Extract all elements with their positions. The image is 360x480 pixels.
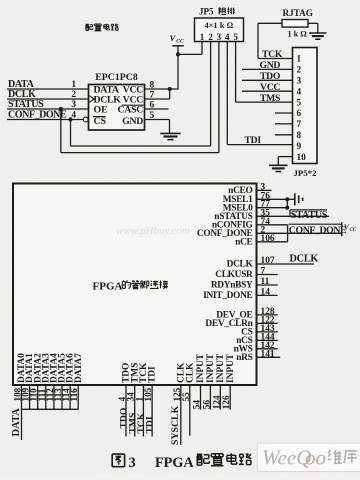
FPGA pin DEV_OE number 128 (261, 307, 275, 317)
net label TDO (260, 71, 281, 82)
wire VCC down to pin 8 rail (177, 46, 179, 89)
U1 pin 5 label GND (122, 116, 143, 127)
wire VCC branch to resistor network pin 1 (178, 53, 202, 55)
faint watermark text (116, 225, 190, 237)
wire FPGA pin nSTATUS (257, 215, 330, 217)
FPGA pin INPUT number 124 (211, 395, 221, 409)
FPGA pin nSTATUS number 35 (261, 208, 271, 218)
wire STATUS to U1 pin 3 (7, 108, 89, 110)
svg-text:6: 6 (297, 109, 302, 119)
ground symbol at U1 GND (160, 133, 181, 139)
svg-text:FPGA: FPGA (155, 455, 194, 471)
svg-text:4: 4 (297, 87, 302, 97)
svg-text:CONF_DONE: CONF_DONE (289, 225, 347, 236)
net label STATUS (right) with overline (290, 210, 328, 221)
wire JP5 pin 3 pull-up to STATUS run (218, 42, 220, 153)
wire CONF_DONE to U1 pin 4 bubble (7, 119, 83, 121)
connector JP5*2 body (293, 48, 318, 164)
svg-text:4: 4 (225, 32, 230, 42)
svg-text:INPUT: INPUT (196, 353, 206, 383)
FPGA pin nCEO label (228, 186, 252, 196)
wire RJTAG right to ground (308, 23, 318, 33)
FPGA pin RDYnBSY number 11 (261, 277, 270, 287)
net label CONF_DONE (right) with overline (289, 224, 348, 236)
wire DATA bus collector (22, 408, 79, 410)
net label CONF_DONE (left) (8, 110, 67, 121)
U1 pin 7 label VCC (123, 94, 144, 105)
wire FPGA pin INPUT 124 (219, 385, 221, 410)
svg-text:EPC1PC8: EPC1PC8 (95, 72, 138, 83)
wire FPGA pin RDYnBSY (257, 284, 278, 286)
FPGA pin TDI (bottom) label (148, 366, 158, 383)
ground symbol at RJTAG (309, 33, 327, 39)
ground symbol sideways at MSEL pins (295, 193, 303, 205)
U1 pin 8 label VCC (123, 84, 144, 95)
FPGA pin MSEL0 number 77 (261, 200, 271, 210)
FPGA block body (13, 184, 257, 386)
wire FPGA pin nCONFIG (257, 224, 288, 226)
FPGA pin nCE label (235, 237, 252, 247)
net label GND (260, 60, 281, 71)
FPGA pin INPUT label 4 (226, 353, 236, 383)
ground symbol at JP5*2 pin 10 (269, 165, 288, 171)
net label SYSCLK (bottom, rotated) (170, 405, 181, 445)
wire FPGA pin DATA3 (45, 385, 47, 409)
svg-text:JP5*2: JP5*2 (294, 168, 318, 178)
FPGA pin DATA6 number 114 (61, 388, 71, 402)
wire FPGA pin DATA5 (61, 385, 63, 409)
svg-text:CASC: CASC (118, 104, 144, 115)
wire FPGA pin CS (257, 331, 278, 333)
wire FPGA pin CLK 55 down (189, 385, 191, 436)
wire FPGA pin DATA2 (37, 385, 39, 409)
FPGA pin DATA3 number 111 (37, 388, 47, 401)
FPGA pin nSTATUS label (214, 212, 252, 222)
wire VCC stub to JP5*2 pin 4 (242, 90, 293, 92)
svg-text:7: 7 (297, 120, 302, 130)
FPGA pin nRS label (236, 353, 252, 363)
FPGA pin DATA4 number 112 (45, 388, 55, 402)
svg-text:RJTAG: RJTAG (283, 8, 313, 18)
FPGA pin TMS number 34 (126, 392, 136, 402)
FPGA pin TDO (bottom) label (122, 363, 132, 383)
net label DCLK (right) (290, 254, 319, 265)
svg-text:CC: CC (350, 228, 357, 233)
resistor network JP5 title: JP5 阻排 (199, 7, 235, 17)
svg-text:3: 3 (71, 100, 76, 110)
junction dot MSEL0 (285, 206, 289, 210)
FPGA pin DATA0 label (17, 353, 27, 383)
FPGA pin CLKUSR label (215, 270, 253, 280)
FPGA pin DCLK number 107 (261, 256, 275, 266)
svg-text:CC: CC (176, 39, 184, 45)
svg-text:STATUS: STATUS (291, 210, 328, 221)
wire U1 pin 5 to ground (145, 120, 170, 134)
FPGA pin CLK label (1) (176, 362, 186, 383)
svg-text:DCLK: DCLK (227, 260, 254, 270)
FPGA pin nCONFIG label (212, 220, 254, 230)
wire JP5 pin 4 pull-up down to TDI wire (226, 42, 228, 145)
wire FPGA pin TDO down (125, 385, 127, 437)
wire FPGA pin nCS (257, 339, 278, 341)
FPGA pin TCK (bottom) label (139, 362, 149, 383)
wire FPGA pin MSEL0 (257, 207, 288, 209)
FPGA pin nWS label (234, 344, 253, 354)
FPGA pin DATA4 label (50, 353, 60, 383)
net label TDO (bottom, rotated) (119, 408, 130, 429)
FPGA pin CLKUSR number 7 (261, 267, 266, 277)
watermark box WeeQoo (257, 443, 360, 471)
wire FPGA pin INPUT 56 (209, 385, 211, 410)
label: 配置电路 (configuration circuit) (86, 24, 119, 31)
FPGA pin nCE number 106 (261, 234, 275, 244)
svg-text:TDI: TDI (148, 366, 158, 383)
svg-text:1: 1 (297, 55, 302, 65)
svg-text:DATA7: DATA7 (74, 353, 84, 383)
svg-text:5: 5 (233, 32, 238, 42)
wire nCONFIG tie to nCE (287, 225, 289, 242)
junction dot on CONF_DONE wire (68, 117, 72, 121)
svg-text:RDYnBSY: RDYnBSY (211, 281, 253, 291)
wire FPGA pin DEV_OE (257, 314, 278, 316)
net label TCK (bottom, rotated) (136, 412, 147, 433)
wire FPGA pin DATA7 (77, 385, 79, 409)
net label TDI (bottom, rotated) (145, 416, 156, 433)
resistor network JP5 body (195, 18, 244, 42)
net label DATA (left) (8, 79, 35, 90)
wire GND stub to JP5*2 pin 2 (242, 68, 293, 70)
wire FPGA pin TCK down (142, 385, 144, 437)
FPGA pin TMS (bottom) label (130, 363, 140, 383)
net label DATA (bottom, rotated) (11, 408, 22, 437)
svg-text:DATA: DATA (11, 408, 22, 437)
wire FPGA pin nCEO (257, 189, 272, 191)
wire FPGA pin DCLK (257, 263, 315, 265)
svg-text:TDI: TDI (145, 416, 156, 433)
net label TMS (bottom, rotated) (127, 413, 138, 434)
FPGA pin CONF_DONE label (197, 229, 253, 239)
FPGA pin DATA5 number 113 (53, 388, 63, 402)
FPGA pin TCK number 1 (134, 397, 144, 402)
wire TDI from JP5 pin 4 to JP5*2 pin 9 (227, 144, 292, 146)
wire U1 pin 6 CASC stub (145, 108, 169, 110)
resistor RJTAG body (282, 20, 308, 28)
watermark text WeeQoo 维库 (262, 446, 357, 470)
FPGA pin DATA1 label (25, 353, 35, 383)
FPGA pin MSEL0 label (223, 203, 253, 213)
wire FPGA pin DEV_CLRn (257, 322, 278, 324)
FPGA pin nCEO number 3 (261, 182, 266, 192)
svg-text:1: 1 (200, 32, 205, 42)
FPGA pin INIT_DONE label (203, 291, 252, 301)
U1 pin number 7 (150, 90, 155, 100)
EPC1PC8 chip U1 body (89, 72, 145, 130)
FPGA pin nRS number 141 (261, 349, 275, 359)
wire JP5 pin 1 to VCC rail (201, 42, 203, 55)
svg-text:FPGA: FPGA (93, 280, 123, 292)
wire FPGA pin TMS down (134, 385, 136, 437)
FPGA pin CS number 143 (261, 324, 275, 334)
U1 pin 4 inversion bubble (83, 117, 88, 122)
FPGA pin RDYnBSY label (211, 281, 253, 291)
JP5 pin numbers 1 2 3 4 5 (200, 32, 239, 42)
FPGA pin INPUT label 3 (216, 353, 226, 383)
wire JP5 pin 5 pull-up down to TMS wire (235, 42, 237, 103)
svg-text:INIT_DONE: INIT_DONE (203, 291, 252, 301)
svg-text:WeeQ: WeeQ (262, 446, 311, 470)
FPGA pin INPUT number 126 (221, 395, 231, 409)
FPGA pin DATA7 number 116 (69, 388, 79, 402)
net label TCK (262, 49, 283, 60)
svg-text:SYSCLK: SYSCLK (170, 405, 181, 445)
U1 pin 1 label DATA (94, 84, 119, 95)
svg-text:OE: OE (94, 104, 109, 115)
FPGA pin INPUT number 54 (192, 400, 202, 410)
wire FPGA pin DATA0 (21, 385, 23, 409)
svg-text:3: 3 (217, 32, 222, 42)
FPGA pin DEV_CLRn label (205, 319, 253, 329)
wire FPGA pin INPUT 126 (229, 385, 231, 410)
FPGA pin MSEL1 label (223, 195, 253, 205)
svg-text:DCLK: DCLK (290, 254, 319, 265)
wire TCK to JP5*2 pin 1 (258, 58, 293, 60)
wire FPGA pin nWS (257, 348, 278, 350)
wire stub JP5*2 pin 6 (275, 112, 293, 114)
FPGA pin TDI number 105 (143, 387, 153, 401)
svg-text:oo: oo (305, 446, 326, 470)
wire FPGA pin TDI down (151, 385, 153, 437)
junction dot MSEL1 (285, 197, 289, 201)
svg-text:CLKUSR: CLKUSR (215, 270, 253, 280)
U1 pin 3 label OE (94, 104, 109, 115)
junction dot VCC branch (176, 52, 180, 56)
FPGA pin DATA7 label (74, 353, 84, 383)
junction dot on STATUS wire (59, 107, 63, 111)
FPGA pin DCLK label (227, 260, 254, 270)
U1 pin number 5 (150, 111, 155, 121)
wire FPGA pin DATA1 (29, 385, 31, 409)
svg-text:2: 2 (208, 32, 213, 42)
U1 DCLK clock input arrow (89, 96, 94, 103)
wire FPGA pin nRS (257, 356, 281, 358)
svg-text:3: 3 (297, 77, 302, 87)
FPGA pin DATA2 number 110 (29, 388, 39, 402)
U1 pin number 3 (71, 100, 76, 110)
FPGA pin INPUT label 1 (196, 353, 206, 383)
junction dot pin7/pin8 (168, 87, 172, 91)
U1 pin number 2 (71, 90, 76, 100)
wire FPGA pin CONF_DONE (257, 232, 342, 234)
FPGA pin TDO number 4 (117, 397, 127, 402)
wire U1 pin 7 riser to pin 8 wire (145, 89, 170, 99)
svg-text:1 k Ω: 1 k Ω (288, 30, 308, 39)
svg-text:2: 2 (71, 90, 76, 100)
connector label JP5*2 (294, 168, 318, 178)
svg-text:nCE: nCE (235, 237, 252, 247)
wire JP5*2 pin 10 to ground (278, 157, 292, 166)
svg-text:2: 2 (297, 66, 302, 76)
power symbol VCC (top) (170, 33, 185, 46)
wire FPGA pin DATA6 (69, 385, 71, 409)
wire STATUS run to JP5 pin 3 (61, 109, 219, 153)
svg-text:INPUT: INPUT (206, 353, 216, 383)
wire FPGA pin INIT_DONE (257, 294, 278, 296)
svg-text:9: 9 (297, 142, 302, 152)
FPGA pin nCONFIG number 74 (261, 217, 271, 227)
svg-text:1: 1 (71, 80, 76, 90)
svg-text:8: 8 (297, 131, 302, 141)
wire stub JP5*2 pin 8 (275, 134, 293, 136)
svg-text:10: 10 (297, 153, 307, 163)
U1 pin number 8 (150, 80, 155, 90)
svg-text:JP5: JP5 (199, 7, 214, 17)
FPGA pin nWS number 142 (261, 341, 275, 351)
net label TDI (245, 135, 262, 146)
FPGA pin MSEL1 number 76 (261, 191, 271, 201)
wire stub JP5*2 pin 7 (275, 123, 293, 125)
wire FPGA pin INPUT 54 (200, 385, 202, 410)
FPGA pin CLK number 55 (181, 392, 191, 402)
FPGA pin INPUT number 56 (201, 400, 211, 410)
FPGA pin DATA5 label (58, 353, 68, 383)
net label TMS (260, 93, 280, 104)
U1 pin number 4 (71, 111, 76, 121)
FPGA pin DATA6 label (66, 353, 76, 383)
U1 pin 4 label CS with overline (93, 116, 107, 127)
svg-text:CLK: CLK (185, 362, 195, 383)
U1 pin number 1 (71, 80, 76, 90)
wire DATA bus tail (21, 409, 23, 440)
wire DCLK to U1 pin 2 (7, 98, 89, 100)
U1 pin 6 label CASC with overline (118, 104, 144, 115)
wire TMS from JP5 pin 5 to JP5*2 pin 5 (236, 101, 293, 103)
resistor RJTAG designator (283, 8, 313, 18)
svg-text:www.pHbuy.com: www.pHbuy.com (116, 225, 190, 237)
wire JP5 pin 2 pull-up to CONF_DONE run (210, 42, 212, 147)
svg-text:CS: CS (94, 116, 107, 127)
FPGA pin nCS number 144 (261, 332, 275, 342)
svg-text:nRS: nRS (236, 353, 252, 363)
net label VCC (260, 82, 280, 93)
net label STATUS (left) (8, 99, 44, 110)
JP5*2 pin numbers 1-10 (297, 55, 307, 163)
svg-text:INPUT: INPUT (216, 353, 226, 383)
FPGA pin DATA3 label (41, 353, 51, 383)
power tap VCC at CONF_DONE (342, 222, 357, 236)
RJTAG value 1 kOhm (288, 30, 308, 39)
FPGA pin CONF_DONE number 2 (261, 225, 266, 235)
wire FPGA pin CLKUSR (257, 274, 278, 276)
U1 pin number 6 (150, 100, 155, 110)
wire DATA to U1 pin 1 (7, 88, 89, 90)
wire TDO stub to JP5*2 pin 3 (242, 79, 293, 81)
figure caption: 图 3 FPGA 配置电路 (112, 453, 251, 471)
FPGA pin INPUT label 2 (206, 353, 216, 383)
net label DCLK (left) (8, 89, 36, 100)
wire CONF_DONE run to JP5 pin 2 (71, 120, 211, 147)
FPGA pin INIT_DONE number 14 (261, 287, 271, 297)
svg-text:INPUT: INPUT (226, 353, 236, 383)
FPGA pin DATA0 number 108 (13, 387, 23, 401)
wire MSEL0 riser to MSEL1 (286, 199, 288, 207)
FPGA pin CLK number 125 (172, 387, 182, 401)
FPGA pin DEV_CLRn number 122 (261, 315, 275, 325)
FPGA pin DATA1 number 109 (21, 387, 31, 401)
svg-text:GND: GND (122, 116, 143, 127)
FPGA pin CS label (241, 328, 252, 338)
svg-text:3: 3 (129, 455, 136, 471)
svg-text:4×1 k Ω: 4×1 k Ω (205, 21, 234, 30)
svg-text:5: 5 (297, 98, 302, 108)
wire FPGA pin nCE (257, 241, 288, 243)
FPGA pin DEV_OE label (216, 311, 252, 321)
FPGA pin nCS label (236, 336, 252, 346)
wire FPGA pin CLK 125 down (180, 385, 182, 445)
wire U1 pin 8 to VCC rail (145, 88, 179, 90)
wire RJTAG left to TCK (258, 23, 282, 58)
JP5 value label 4x1kOhm (205, 21, 234, 30)
FPGA block label: FPGA的管脚连接 (93, 280, 169, 292)
FPGA pin DATA2 label (33, 353, 43, 383)
U1 pin 2 label DCLK (94, 94, 122, 105)
wire FPGA pin MSEL1 (257, 198, 295, 200)
FPGA pin CLK label (2) (185, 362, 195, 383)
wire FPGA pin DATA4 (53, 385, 55, 409)
